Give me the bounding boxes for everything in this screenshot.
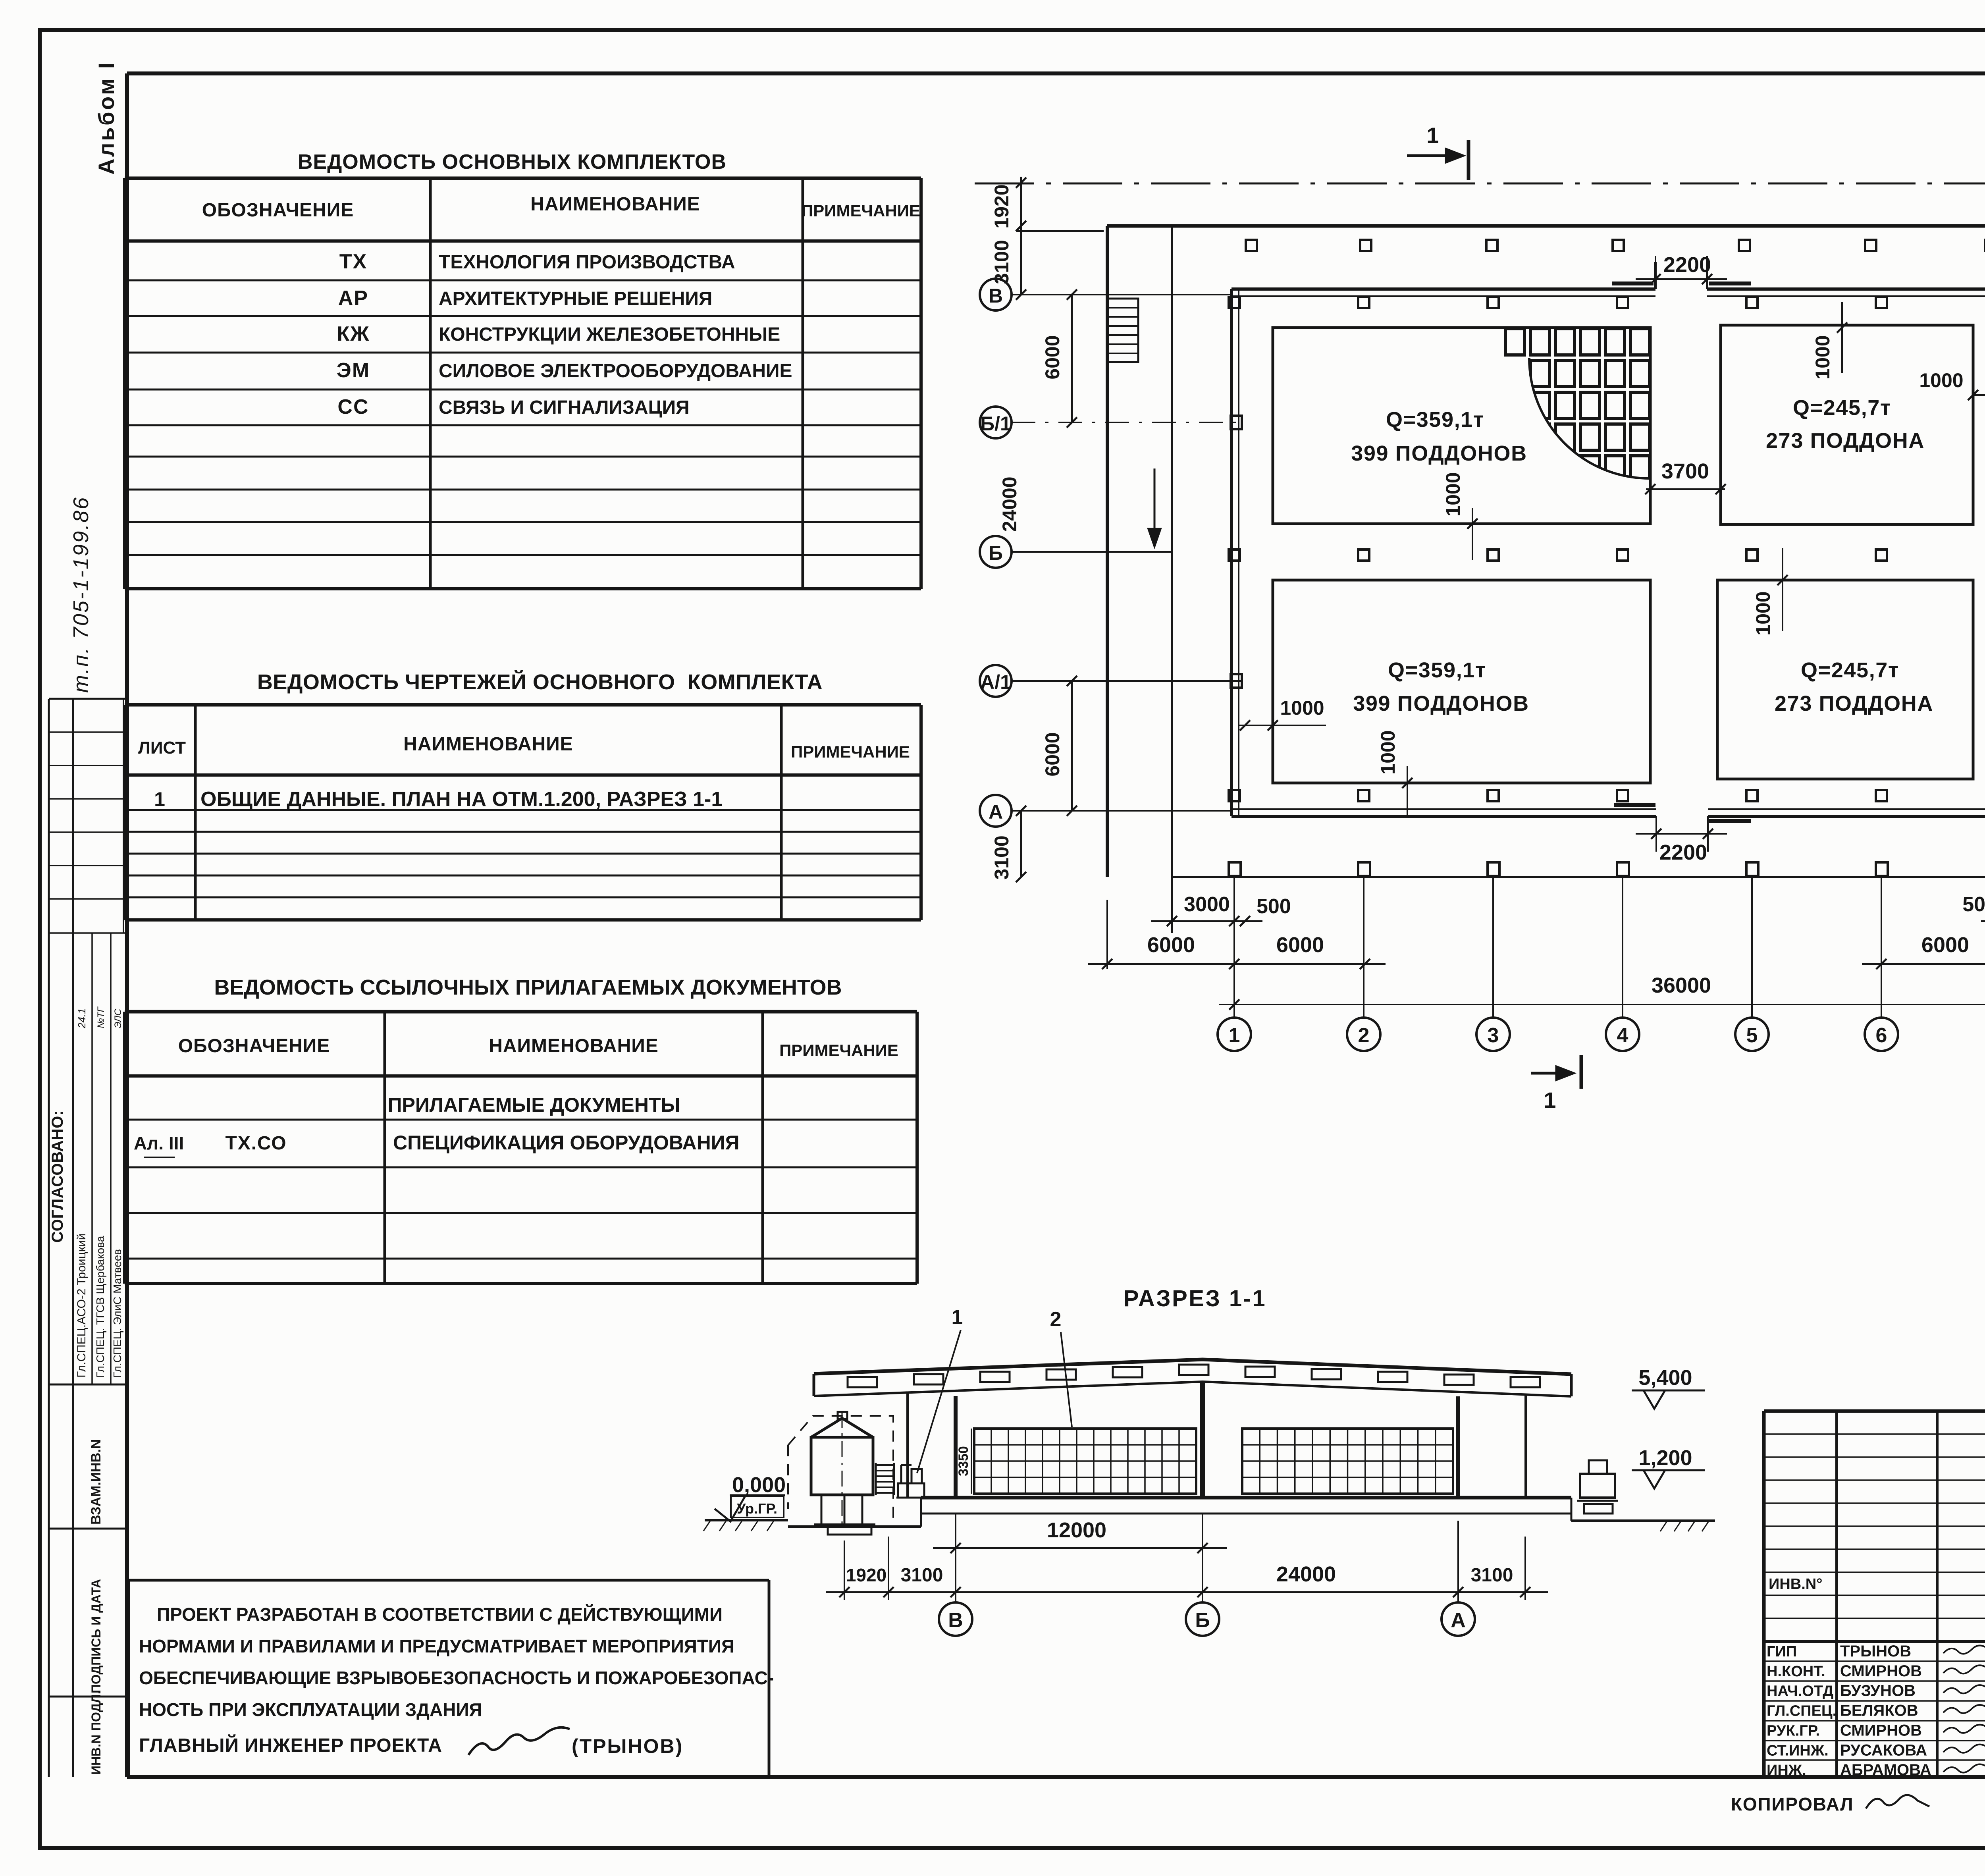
left dim 3100 bottom <box>991 806 1026 882</box>
svg-text:т.п. 705-1-199.86: т.п. 705-1-199.86 <box>69 496 93 693</box>
svg-text:НОСТЬ ПРИ ЭКСПЛУАТАЦИИ ЗДАНИЯ: НОСТЬ ПРИ ЭКСПЛУАТАЦИИ ЗДАНИЯ <box>139 1699 482 1720</box>
svg-text:КОПИРОВАЛ: КОПИРОВАЛ <box>1731 1794 1854 1814</box>
svg-text:Н.КОНТ.: Н.КОНТ. <box>1767 1663 1825 1680</box>
grid bubble 4 <box>1606 877 1639 1051</box>
svg-text:399 ПОДДОНОВ: 399 ПОДДОНОВ <box>1353 692 1529 715</box>
section grid bubble Б <box>1186 1602 1219 1636</box>
dim 1000 BL stack bottom <box>1377 730 1413 818</box>
svg-text:6000: 6000 <box>1921 933 1969 957</box>
svg-text:3100: 3100 <box>991 835 1013 879</box>
svg-text:А: А <box>1451 1609 1466 1632</box>
section equipment right <box>1577 1460 1618 1514</box>
svg-text:500: 500 <box>1257 895 1291 918</box>
svg-text:24.1: 24.1 <box>76 1008 88 1029</box>
section rail platform <box>788 1525 921 1528</box>
svg-text:КОНСТРУКЦИИ ЖЕЛЕЗОБЕТОННЫЕ: КОНСТРУКЦИИ ЖЕЛЕЗОБЕТОННЫЕ <box>439 324 780 345</box>
svg-text:СПЕЦИФИКАЦИЯ ОБОРУДОВАНИЯ: СПЕЦИФИКАЦИЯ ОБОРУДОВАНИЯ <box>393 1132 740 1154</box>
svg-text:БЕЛЯКОВ: БЕЛЯКОВ <box>1840 1702 1918 1720</box>
section dims <box>826 1514 1548 1602</box>
svg-text:3350: 3350 <box>956 1446 971 1476</box>
stack bottom-right Q=245,7т <box>1717 580 1973 779</box>
south platform edge <box>1172 876 1985 878</box>
bottom dim line 6000s left <box>1088 900 1386 969</box>
svg-text:А/1: А/1 <box>980 671 1011 693</box>
section grid bubble В <box>939 1602 972 1636</box>
svg-text:АР: АР <box>338 287 368 310</box>
grid bubble В <box>980 279 1012 310</box>
svg-text:Б/1: Б/1 <box>980 413 1011 435</box>
svg-text:500: 500 <box>1962 893 1985 916</box>
section pallet stack right <box>1242 1429 1453 1494</box>
grid line А <box>1012 810 1231 812</box>
bottom dim 36000 <box>1219 974 1985 1010</box>
svg-text:1: 1 <box>154 788 166 810</box>
table 2 title <box>257 670 823 694</box>
svg-text:ПРИМЕЧАНИЕ: ПРИМЕЧАНИЕ <box>779 1041 898 1060</box>
svg-text:Б: Б <box>989 542 1003 564</box>
west stairs hatch <box>1107 299 1138 362</box>
title block signature rows <box>1767 1643 1985 1779</box>
dim 1000 TR stack right <box>1919 369 1985 400</box>
svg-text:ОБОЗНАЧЕНИЕ: ОБОЗНАЧЕНИЕ <box>178 1035 330 1057</box>
svg-text:1920: 1920 <box>846 1565 887 1585</box>
railway axis line <box>975 183 1985 185</box>
section grid bubble А <box>1442 1602 1475 1636</box>
grid bubble А/1 <box>980 665 1012 697</box>
dim 2200 south door <box>1636 816 1727 864</box>
bottom dim line 500 3000 right <box>1962 893 1985 926</box>
section stack height 3350 <box>956 1429 971 1494</box>
grid bubble 3 <box>1476 877 1510 1051</box>
svg-text:1000: 1000 <box>1377 730 1399 774</box>
table 1 title <box>298 150 727 174</box>
svg-text:2: 2 <box>1050 1308 1062 1331</box>
svg-text:ВЗАМ.ИНВ.N: ВЗАМ.ИНВ.N <box>89 1439 104 1525</box>
left dim 6000 В-Б1 <box>1041 289 1077 428</box>
svg-text:СС: СС <box>337 395 369 418</box>
svg-text:3100: 3100 <box>991 240 1013 284</box>
svg-text:СМИРНОВ: СМИРНОВ <box>1840 1722 1922 1739</box>
south door leaves <box>1614 805 1751 821</box>
svg-text:273 ПОДДОНА: 273 ПОДДОНА <box>1766 429 1925 453</box>
svg-text:№ТГ: №ТГ <box>96 1006 106 1028</box>
dim 1000 BL stack west <box>1239 697 1326 731</box>
svg-text:2200: 2200 <box>1659 841 1707 864</box>
svg-text:ЭМ: ЭМ <box>337 359 370 382</box>
table 3 ведомость ссылочных документов <box>125 1012 917 1284</box>
table 2 ведомость чертежей <box>125 705 921 920</box>
svg-text:Гл.СПЕЦ. ЭлиС Матвеев: Гл.СПЕЦ. ЭлиС Матвеев <box>111 1249 123 1378</box>
section tank dashed clearance <box>788 1416 893 1525</box>
svg-text:ПРИМЕЧАНИЕ: ПРИМЕЧАНИЕ <box>791 742 910 761</box>
svg-text:НАИМЕНОВАНИЕ: НАИМЕНОВАНИЕ <box>530 194 700 215</box>
left dim 24000 <box>998 476 1021 532</box>
north door vestibule <box>1612 262 1751 289</box>
svg-text:СИЛОВОЕ ЭЛЕКТРООБОРУДОВАНИЕ: СИЛОВОЕ ЭЛЕКТРООБОРУДОВАНИЕ <box>439 361 792 382</box>
left margin label Album I <box>94 61 119 175</box>
svg-text:ПРИЛАГАЕМЫЕ ДОКУМЕНТЫ: ПРИЛАГАЕМЫЕ ДОКУМЕНТЫ <box>388 1094 680 1116</box>
dim 1000 TL stack bottom <box>1442 472 1478 560</box>
column squares on Б row <box>1229 549 1985 561</box>
section right ground <box>1571 1498 1715 1531</box>
svg-text:ОБОЗНАЧЕНИЕ: ОБОЗНАЧЕНИЕ <box>202 200 354 221</box>
left dim 6000 А1-А <box>1041 676 1077 816</box>
svg-text:РАЗРЕЗ 1-1: РАЗРЕЗ 1-1 <box>1124 1286 1266 1311</box>
grid line А1 <box>1012 674 1243 688</box>
svg-text:ВЕДОМОСТЬ ОСНОВНЫХ КОМПЛЕКТОВ: ВЕДОМОСТЬ ОСНОВНЫХ КОМПЛЕКТОВ <box>298 150 727 174</box>
svg-text:ПРИМЕЧАНИЕ: ПРИМЕЧАНИЕ <box>801 201 920 220</box>
svg-text:Гл.СПЕЦ.АСО-2 Троицкий: Гл.СПЕЦ.АСО-2 Троицкий <box>75 1234 88 1378</box>
grid bubble 6 <box>1865 877 1898 1051</box>
note box project statement <box>129 1580 774 1777</box>
bottom dim line 3000 500 left <box>1151 877 1291 933</box>
svg-text:ОБЩИЕ ДАННЫЕ. ПЛАН НА ОТМ.1.20: ОБЩИЕ ДАННЫЕ. ПЛАН НА ОТМ.1.200, РАЗРЕЗ … <box>200 788 723 811</box>
svg-text:(ТРЫНОВ): (ТРЫНОВ) <box>572 1735 683 1757</box>
pallet grid quarter <box>1497 329 1650 496</box>
building west platform strip <box>1107 226 1172 877</box>
section forklift left <box>896 1465 927 1498</box>
svg-text:6000: 6000 <box>1041 335 1064 379</box>
svg-text:5,400: 5,400 <box>1638 1366 1692 1390</box>
svg-text:2: 2 <box>1358 1024 1370 1047</box>
svg-text:ТЕХНОЛОГИЯ ПРОИЗВОДСТВА: ТЕХНОЛОГИЯ ПРОИЗВОДСТВА <box>439 252 735 273</box>
dim 1000 BR stack top <box>1752 548 1788 636</box>
svg-text:В: В <box>948 1609 963 1632</box>
title block frame <box>1764 1411 1985 1777</box>
svg-text:СОГЛАСОВАНО:: СОГЛАСОВАНО: <box>49 1110 66 1243</box>
section elevation 5,400 <box>1632 1366 1705 1409</box>
svg-text:Ур.ГР.: Ур.ГР. <box>737 1500 777 1517</box>
stack top-right Q=245,7т <box>1721 325 1973 524</box>
column squares on А row <box>1229 790 1985 801</box>
left sidebar stamp boxes <box>49 699 128 1777</box>
column squares on В row <box>1229 297 1985 308</box>
svg-text:24000: 24000 <box>1276 1562 1336 1586</box>
column squares south canopy <box>1229 862 1985 876</box>
svg-text:Q=245,7т: Q=245,7т <box>1793 396 1891 420</box>
svg-text:3700: 3700 <box>1661 459 1709 483</box>
svg-text:Б: Б <box>1195 1609 1210 1632</box>
svg-text:12000: 12000 <box>1047 1518 1106 1542</box>
grid bubble 1 <box>1218 877 1251 1051</box>
svg-text:Альбом I: Альбом I <box>94 61 119 175</box>
section elevation 0,000 <box>715 1473 786 1521</box>
svg-text:Гл.СПЕЦ. ТГСВ Щербакова: Гл.СПЕЦ. ТГСВ Щербакова <box>94 1236 106 1378</box>
svg-text:ЛИСТ: ЛИСТ <box>138 738 186 758</box>
svg-text:СВЯЗЬ И СИГНАЛИЗАЦИЯ: СВЯЗЬ И СИГНАЛИЗАЦИЯ <box>439 397 690 418</box>
svg-text:АБРАМОВА: АБРАМОВА <box>1840 1761 1931 1779</box>
svg-text:0,000: 0,000 <box>732 1473 786 1497</box>
svg-text:Q=359,1т: Q=359,1т <box>1386 408 1484 432</box>
section elevation 1,200 <box>1632 1446 1705 1488</box>
svg-text:Q=359,1т: Q=359,1т <box>1388 658 1486 682</box>
grid line Б1 <box>1012 416 1243 429</box>
svg-text:1: 1 <box>1229 1024 1240 1047</box>
section tank <box>811 1412 875 1535</box>
grid bubble Б <box>980 536 1012 568</box>
svg-text:1: 1 <box>1544 1087 1557 1112</box>
left dim chain 1920 3100 <box>991 177 1104 300</box>
svg-text:3000: 3000 <box>1184 893 1230 916</box>
svg-text:1000: 1000 <box>1752 591 1774 635</box>
svg-text:ТХ: ТХ <box>339 250 368 273</box>
svg-text:1000: 1000 <box>1442 472 1464 516</box>
svg-text:24000: 24000 <box>998 476 1021 532</box>
svg-text:СТ.ИНЖ.: СТ.ИНЖ. <box>1767 1742 1829 1759</box>
grid bubble А <box>980 795 1012 827</box>
svg-text:Ал. III: Ал. III <box>134 1133 184 1153</box>
section leader 2 <box>1050 1308 1072 1427</box>
svg-text:КЖ: КЖ <box>337 322 370 345</box>
svg-text:АРХИТЕКТУРНЫЕ РЕШЕНИЯ: АРХИТЕКТУРНЫЕ РЕШЕНИЯ <box>439 288 712 309</box>
grid bubble 2 <box>1347 877 1380 1051</box>
svg-text:РУСАКОВА: РУСАКОВА <box>1840 1741 1927 1759</box>
table 3 title <box>214 976 842 999</box>
left margin doc number <box>69 496 93 693</box>
svg-text:СМИРНОВ: СМИРНОВ <box>1840 1662 1922 1680</box>
svg-text:ИНВ.N°: ИНВ.N° <box>1769 1576 1822 1593</box>
section rack ladder <box>876 1463 894 1495</box>
svg-text:3100: 3100 <box>1471 1565 1513 1586</box>
svg-text:399 ПОДДОНОВ: 399 ПОДДОНОВ <box>1351 442 1527 465</box>
section floor slab <box>921 1498 1571 1527</box>
svg-text:БУЗУНОВ: БУЗУНОВ <box>1840 1682 1916 1700</box>
svg-text:В: В <box>989 285 1003 307</box>
svg-text:6000: 6000 <box>1041 732 1064 776</box>
section title <box>1124 1286 1266 1311</box>
svg-text:ГЛАВНЫЙ ИНЖЕНЕР ПРОЕКТА: ГЛАВНЫЙ ИНЖЕНЕР ПРОЕКТА <box>139 1734 442 1756</box>
svg-text:НАЧ.ОТД: НАЧ.ОТД <box>1767 1683 1833 1700</box>
section mark 1 bottom <box>1531 1055 1581 1112</box>
svg-text:1,200: 1,200 <box>1638 1446 1692 1470</box>
column squares north canopy <box>1246 240 1985 251</box>
grid bubble 5 <box>1735 877 1769 1051</box>
svg-text:НОРМАМИ И ПРАВИЛАМИ И ПРЕДУСМА: НОРМАМИ И ПРАВИЛАМИ И ПРЕДУСМАТРИВАЕТ МЕ… <box>139 1636 734 1656</box>
bottom dim line 6000s right <box>1862 900 1985 969</box>
section mark 1 top <box>1407 123 1469 180</box>
west ramp down arrow <box>1147 469 1162 549</box>
section columns <box>908 1382 1526 1498</box>
svg-text:ОБЕСПЕЧИВАЮЩИЕ ВЗРЫВОБЕЗОПАСНО: ОБЕСПЕЧИВАЮЩИЕ ВЗРЫВОБЕЗОПАСНОСТЬ И ПОЖА… <box>139 1668 774 1688</box>
svg-text:НАИМЕНОВАНИЕ: НАИМЕНОВАНИЕ <box>403 734 573 755</box>
stack top-left Q=359,1т <box>1273 328 1650 524</box>
svg-text:36000: 36000 <box>1652 974 1711 997</box>
svg-text:1000: 1000 <box>1812 335 1834 379</box>
svg-text:ТРЫНОВ: ТРЫНОВ <box>1840 1643 1911 1660</box>
grid line Б <box>1012 551 1172 553</box>
svg-text:1000: 1000 <box>1919 369 1963 391</box>
dim 1000 TR stack left <box>1812 302 1847 380</box>
svg-text:ИНЖ.: ИНЖ. <box>1767 1762 1806 1779</box>
dim 2200 north door <box>1636 253 1727 289</box>
svg-text:ПРОЕКТ РАЗРАБОТАН В СООТВЕТСТВ: ПРОЕКТ РАЗРАБОТАН В СООТВЕТСТВИИ С ДЕЙСТ… <box>157 1604 723 1625</box>
svg-text:ПОДПИСЬ И ДАТА: ПОДПИСЬ И ДАТА <box>89 1579 103 1693</box>
svg-text:1920: 1920 <box>991 184 1013 228</box>
svg-text:ГЛ.СПЕЦ.: ГЛ.СПЕЦ. <box>1767 1703 1837 1720</box>
section ground line left <box>703 1520 788 1531</box>
section leader 1 <box>917 1306 964 1473</box>
section roof <box>814 1359 1571 1396</box>
building north canopy edge <box>1107 224 1985 228</box>
stack bottom-left Q=359,1т <box>1273 580 1650 783</box>
svg-text:4: 4 <box>1617 1024 1628 1047</box>
svg-text:5: 5 <box>1746 1024 1758 1047</box>
svg-text:3100: 3100 <box>901 1565 943 1586</box>
hall walls <box>1231 289 1985 816</box>
svg-text:3: 3 <box>1488 1024 1499 1047</box>
svg-text:ВЕДОМОСТЬ ССЫЛОЧНЫХ ПРИЛАГАЕМЫ: ВЕДОМОСТЬ ССЫЛОЧНЫХ ПРИЛАГАЕМЫХ ДОКУМЕНТ… <box>214 976 842 999</box>
svg-text:ЭЛС: ЭЛС <box>113 1008 123 1028</box>
svg-text:ИНВ.N ПОДЛ.: ИНВ.N ПОДЛ. <box>89 1691 103 1775</box>
table 1 ведомость основных комплектов <box>125 178 921 589</box>
grid line В <box>1012 294 1231 295</box>
svg-text:273 ПОДДОНА: 273 ПОДДОНА <box>1775 692 1933 715</box>
svg-text:ГИП: ГИП <box>1767 1643 1797 1660</box>
svg-text:1: 1 <box>1426 123 1440 148</box>
grid bubble Б/1 <box>980 407 1012 438</box>
svg-text:1: 1 <box>952 1306 964 1329</box>
svg-text:6000: 6000 <box>1276 933 1324 957</box>
svg-text:6: 6 <box>1876 1024 1887 1047</box>
svg-text:ВЕДОМОСТЬ ЧЕРТЕЖЕЙ ОСНОВНОГО: ВЕДОМОСТЬ ЧЕРТЕЖЕЙ ОСНОВНОГО КОМПЛЕКТА <box>257 670 823 694</box>
svg-text:ТХ.СО: ТХ.СО <box>225 1133 287 1154</box>
title block left grid <box>1764 1411 1985 1777</box>
svg-text:6000: 6000 <box>1147 933 1195 957</box>
svg-text:1000: 1000 <box>1280 697 1324 719</box>
section pallet stack left <box>974 1429 1196 1494</box>
svg-text:РУК.ГР.: РУК.ГР. <box>1767 1722 1820 1739</box>
svg-text:Q=245,7т: Q=245,7т <box>1801 658 1899 682</box>
footer kopiroval <box>1731 1778 1985 1816</box>
svg-text:НАИМЕНОВАНИЕ: НАИМЕНОВАНИЕ <box>489 1035 658 1057</box>
svg-text:А: А <box>989 801 1003 823</box>
svg-text:2200: 2200 <box>1663 253 1711 277</box>
dim 3700 between stacks <box>1645 459 1726 494</box>
